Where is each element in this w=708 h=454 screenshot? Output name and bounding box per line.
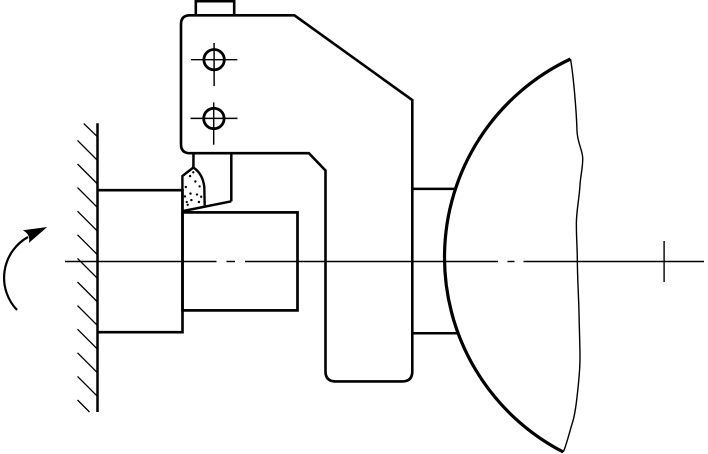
hole 1 xyxy=(204,50,224,70)
centerline xyxy=(65,261,704,263)
hole 2 crosshair xyxy=(191,102,238,144)
hole 2 xyxy=(204,108,224,128)
turned part xyxy=(183,212,298,310)
break line xyxy=(563,59,582,452)
wall line xyxy=(96,123,99,412)
rotation arrow xyxy=(4,228,46,310)
hole 1 crosshair xyxy=(191,43,237,86)
centerline end tick xyxy=(663,241,665,282)
wall hatching xyxy=(78,124,98,413)
tool post body xyxy=(181,15,412,381)
top tab xyxy=(196,1,234,15)
upper hub line xyxy=(412,188,456,191)
insert stipple dots xyxy=(184,171,203,206)
lower hub line xyxy=(412,332,459,335)
chuck workpiece xyxy=(98,190,183,332)
cutting insert xyxy=(182,168,204,211)
dome arc xyxy=(445,59,571,452)
tool shank xyxy=(183,153,231,211)
